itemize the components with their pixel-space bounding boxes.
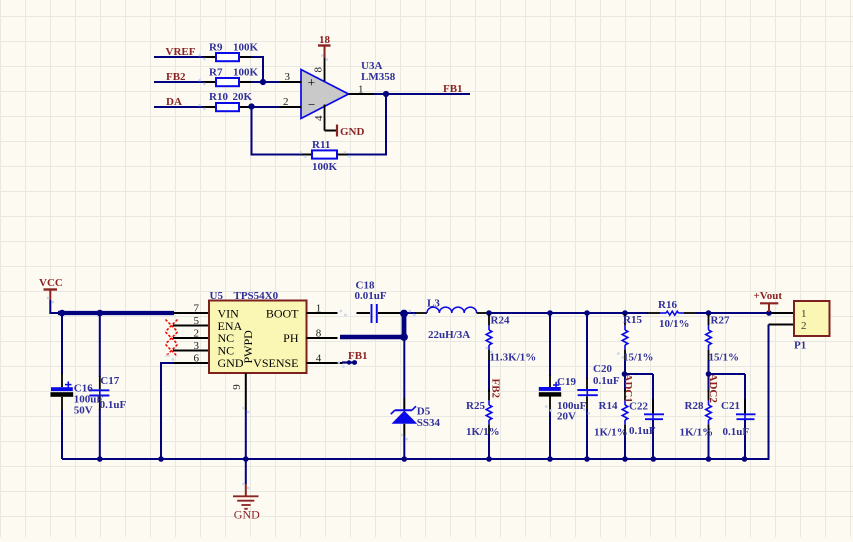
svg-text:C22: C22 <box>629 400 648 412</box>
svg-text:22uH/3A: 22uH/3A <box>428 329 470 341</box>
svg-text:GND: GND <box>234 507 260 521</box>
svg-text:U3A: U3A <box>361 60 382 72</box>
svg-text:2: 2 <box>801 320 807 332</box>
svg-text:50V: 50V <box>74 404 93 416</box>
svg-text:U5: U5 <box>210 290 224 302</box>
svg-text:1K/1%: 1K/1% <box>466 426 500 438</box>
svg-text:R28: R28 <box>685 400 704 412</box>
svg-text:VCC: VCC <box>39 277 63 289</box>
svg-text:R27: R27 <box>711 314 730 326</box>
svg-text:BOOT: BOOT <box>266 306 299 320</box>
svg-text:3: 3 <box>285 71 291 83</box>
svg-text:4: 4 <box>313 115 325 121</box>
svg-text:R10: R10 <box>209 91 228 103</box>
svg-text:SS34: SS34 <box>417 417 441 429</box>
svg-text:D5: D5 <box>417 406 431 418</box>
svg-text:R24: R24 <box>491 314 510 326</box>
svg-text:18: 18 <box>319 34 331 46</box>
svg-text:0.01uF: 0.01uF <box>355 290 387 302</box>
svg-text:6: 6 <box>194 352 200 364</box>
svg-text:C19: C19 <box>557 376 576 388</box>
svg-text:R25: R25 <box>466 400 485 412</box>
svg-text:0.1uF: 0.1uF <box>100 399 127 411</box>
svg-text:TPS54X0: TPS54X0 <box>234 290 279 302</box>
svg-text:7: 7 <box>194 302 200 314</box>
svg-text:3: 3 <box>194 340 200 352</box>
svg-text:VSENSE: VSENSE <box>253 356 298 370</box>
svg-text:FB2: FB2 <box>490 379 502 399</box>
svg-text:100K: 100K <box>233 41 259 53</box>
svg-text:FB2: FB2 <box>166 71 186 83</box>
svg-text:11.3K/1%: 11.3K/1% <box>490 351 537 363</box>
svg-text:FB1: FB1 <box>443 83 463 95</box>
svg-text:R16: R16 <box>658 299 677 311</box>
svg-text:FB1: FB1 <box>348 350 368 362</box>
svg-text:0.1uF: 0.1uF <box>723 426 750 438</box>
svg-text:1K/1%: 1K/1% <box>680 427 714 439</box>
svg-text:0.1uF: 0.1uF <box>629 425 656 437</box>
svg-text:2: 2 <box>194 327 200 339</box>
svg-text:0.1uF: 0.1uF <box>593 375 620 387</box>
svg-text:C17: C17 <box>100 375 119 387</box>
svg-text:DA: DA <box>166 96 182 108</box>
svg-text:GND: GND <box>340 126 365 138</box>
svg-text:R11: R11 <box>312 139 330 151</box>
svg-text:ADC1: ADC1 <box>622 374 634 403</box>
svg-text:VREF: VREF <box>166 46 196 58</box>
svg-text:R9: R9 <box>209 41 223 53</box>
svg-text:15/1%: 15/1% <box>623 351 654 363</box>
svg-text:1: 1 <box>358 83 364 95</box>
svg-text:C21: C21 <box>721 400 740 412</box>
svg-text:1K/1%: 1K/1% <box>594 426 628 438</box>
svg-text:1: 1 <box>316 302 322 314</box>
svg-text:R7: R7 <box>209 66 223 78</box>
svg-text:8: 8 <box>316 327 322 339</box>
svg-text:100K: 100K <box>233 66 259 78</box>
svg-text:20V: 20V <box>557 411 576 423</box>
svg-text:1: 1 <box>801 308 807 320</box>
svg-text:+: + <box>308 75 316 90</box>
svg-text:R14: R14 <box>599 400 618 412</box>
svg-text:R15: R15 <box>623 314 642 326</box>
svg-text:20K: 20K <box>233 91 253 103</box>
svg-text:C20: C20 <box>593 363 612 375</box>
svg-text:100K: 100K <box>312 161 338 173</box>
svg-text:GND: GND <box>218 356 244 370</box>
svg-text:P1: P1 <box>794 339 806 351</box>
svg-text:L3: L3 <box>427 297 440 309</box>
svg-text:8: 8 <box>313 67 325 73</box>
svg-text:15/1%: 15/1% <box>709 351 740 363</box>
svg-text:PH: PH <box>283 331 299 345</box>
svg-text:2: 2 <box>283 96 289 108</box>
svg-text:LM358: LM358 <box>361 71 396 83</box>
svg-text:+Vout: +Vout <box>754 290 783 302</box>
svg-text:5: 5 <box>194 315 200 327</box>
svg-text:PWPD: PWPD <box>241 330 255 364</box>
svg-text:9: 9 <box>231 384 243 390</box>
svg-text:−: − <box>308 97 315 112</box>
svg-text:4: 4 <box>316 352 322 364</box>
svg-text:10/1%: 10/1% <box>659 318 690 330</box>
svg-text:ADC2: ADC2 <box>707 374 719 404</box>
